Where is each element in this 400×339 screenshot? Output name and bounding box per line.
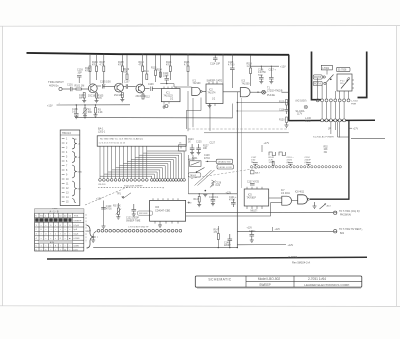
- svg-text:R101 1M: R101 1M: [75, 85, 85, 88]
- svg-text:C107: C107: [124, 82, 130, 84]
- TB101 group brackets: [72, 138, 77, 203]
- connector key: [250, 171, 254, 174]
- truth table header row: [35, 215, 79, 217]
- svg-text:+12V: +12V: [280, 65, 286, 68]
- pins IC2: [209, 82, 217, 106]
- svg-text:7-7051: 7-7051: [288, 255, 298, 259]
- diagonal pointer wire: [85, 186, 130, 205]
- capacitor C101: [71, 87, 77, 91]
- resistor column on shield edge R119: [286, 100, 288, 106]
- svg-text:1K: 1K: [188, 141, 191, 143]
- svg-text:74LS00: 74LS00: [242, 83, 251, 85]
- svg-text:GND: GND: [78, 171, 83, 173]
- truth table data rows: [36, 224, 81, 240]
- svg-text:0.1S: 0.1S: [73, 249, 78, 251]
- svg-text:SCHEMATIC: SCHEMATIC: [208, 278, 231, 282]
- truth table subheader: [39, 240, 73, 243]
- svg-text:L-7002: L-7002: [351, 101, 359, 103]
- svg-text:R111: R111: [144, 71, 150, 73]
- wire: bold horizontal into gate output: [310, 198, 350, 200]
- truth table dense row: [35, 218, 71, 222]
- svg-text:TP1: TP1: [117, 193, 122, 196]
- svg-text:C139 0.1: C139 0.1: [209, 197, 219, 199]
- svg-text:ADJ: ADJ: [327, 205, 331, 208]
- svg-text:TA7061P: TA7061P: [247, 197, 257, 200]
- wire IC7 to output gate: [292, 200, 298, 202]
- svg-text:IC1: IC1: [166, 92, 170, 95]
- resistor R108b: [95, 108, 97, 114]
- BA-1 pin ticks: [100, 146, 181, 148]
- svg-text:2SC1815: 2SC1815: [114, 95, 124, 97]
- cap C125: [196, 144, 201, 153]
- test point TP1 flag: [123, 193, 131, 199]
- resistor R142: [198, 197, 200, 203]
- coupling capacitor C109: [145, 87, 162, 92]
- feed resistor R113 at 155: [155, 55, 157, 70]
- feed resistor R110: [142, 55, 144, 66]
- trimmer pot: [320, 204, 327, 210]
- svg-text:C137 47/25: C137 47/25: [247, 181, 260, 183]
- output terminal 2: [334, 230, 337, 233]
- svg-text:+17V: +17V: [353, 127, 359, 130]
- svg-text:47/16: 47/16: [106, 209, 112, 211]
- ground under IC2: [208, 104, 212, 108]
- svg-text:NC GND GND Vcc CLK GND NC CLAB: NC GND GND Vcc CLK GND NC CLAB QQ: [100, 138, 143, 141]
- IC5 pins top: [247, 187, 262, 189]
- feed resistor R108: [121, 55, 123, 66]
- capacitor C118: [285, 105, 289, 114]
- +12V sub-bus: [251, 65, 280, 67]
- wire gate to sweep gate box: [202, 90, 206, 92]
- svg-text:B22: B22: [340, 233, 345, 235]
- svg-text:C117 +: C117 +: [269, 70, 277, 72]
- heater connector row: [250, 166, 341, 168]
- svg-text:S1-100A: S1-100A: [296, 110, 305, 113]
- feed wire 160: [159, 55, 161, 78]
- long dashed pointer: [191, 168, 262, 179]
- shield left wall: [312, 52, 322, 100]
- svg-text:0.5μS: 0.5μS: [73, 225, 79, 227]
- gate IC3: [240, 88, 250, 97]
- emitter network Q102: [121, 93, 123, 98]
- wire: bold right edge of sweep section: [288, 55, 290, 121]
- svg-text:47/16: 47/16: [204, 158, 210, 160]
- svg-text:L202-1: L202-1: [98, 131, 106, 133]
- power switch arm: [326, 75, 334, 83]
- power bus connector pins: [321, 119, 346, 122]
- svg-text:C118: C118: [279, 110, 285, 112]
- AC connector row: [316, 99, 350, 102]
- diagonal wires to board: [198, 170, 215, 186]
- cap C137 above IC5: [250, 184, 255, 186]
- coupling capacitor C107: [123, 84, 135, 89]
- node dots: [76, 104, 77, 105]
- svg-text:CD4047-CBE: CD4047-CBE: [155, 210, 170, 213]
- svg-text:10μS: 10μS: [73, 234, 79, 236]
- svg-text:R132 100K SWEEP: R132 100K SWEEP: [124, 186, 143, 188]
- capacitor C146: [228, 234, 233, 248]
- capacitor C122: [132, 204, 137, 214]
- bottom connector row CN-202: [97, 229, 182, 232]
- wire IC6 out A: [186, 211, 333, 213]
- svg-text:BA-7: BA-7: [255, 172, 261, 175]
- svg-text:POS: POS: [74, 215, 79, 217]
- IC6 top pins: [153, 198, 178, 200]
- ground column: [285, 123, 289, 128]
- slide switch S2: [190, 161, 202, 167]
- down wire from IC2: [209, 106, 211, 131]
- svg-text:R3 50K: R3 50K: [113, 206, 121, 208]
- node junction above IC1: [166, 83, 167, 84]
- feed resistor R118: [250, 55, 252, 68]
- feed resistor R102: [89, 55, 91, 66]
- svg-text:A?B: A?B: [50, 241, 55, 244]
- wire to bold edge: [266, 91, 267, 93]
- truth table frame: [35, 209, 84, 251]
- svg-text:L-100: L-100: [305, 118, 312, 120]
- svg-text:IC8 4011: IC8 4011: [295, 192, 305, 194]
- output terminal 1: [334, 211, 337, 214]
- resistor R101: [76, 88, 82, 90]
- long vertical wire from gate node: [236, 103, 238, 248]
- node dots bottom rail: [218, 247, 219, 248]
- svg-text:+17V: +17V: [264, 142, 270, 145]
- feed resistor R104: [96, 55, 98, 66]
- svg-text:4.7/50: 4.7/50: [228, 65, 235, 67]
- fuse box S1-7008: [337, 67, 351, 71]
- svg-text:+12V: +12V: [288, 244, 294, 247]
- wires below power bus: [331, 122, 340, 138]
- svg-text:R142: R142: [194, 199, 200, 201]
- svg-text:IC5: IC5: [248, 193, 252, 196]
- test point TP-1: [262, 90, 266, 94]
- power transformer label LT301: [321, 65, 332, 70]
- svg-text:TAN: TAN: [258, 74, 263, 77]
- svg-text:47K: 47K: [92, 65, 97, 67]
- wire: bold vertical to output gate: [348, 121, 350, 200]
- svg-text:C114 10P: C114 10P: [210, 64, 221, 66]
- ROT A jack: [313, 81, 322, 85]
- unblanking gate IC7: [282, 196, 292, 205]
- svg-text:LEADER ELECTRONICS CORP.: LEADER ELECTRONICS CORP.: [304, 283, 350, 287]
- IC5 pins bottom: [247, 206, 262, 209]
- wire: bold bus with power connector row: [288, 119, 375, 121]
- svg-text:0.22: 0.22: [216, 185, 221, 187]
- svg-text:+12V: +12V: [86, 231, 92, 233]
- pulse waveform glyphs: [269, 152, 275, 156]
- mode label box: [138, 211, 153, 215]
- svg-text:+12V: +12V: [226, 192, 232, 195]
- power select block: [337, 74, 352, 91]
- svg-text:R112: R112: [145, 97, 151, 99]
- wire up from rail: [217, 226, 219, 231]
- svg-text:R120: R120: [279, 120, 285, 122]
- resistor pack on board: [179, 145, 187, 151]
- wires AC row to power bus: [322, 102, 344, 119]
- svg-text:50K: 50K: [88, 112, 93, 114]
- feed resistor R109: [126, 55, 128, 74]
- bottom rail wire: [93, 247, 237, 249]
- feed resistor R111: [146, 55, 148, 74]
- svg-text:C105 1/50: C105 1/50: [100, 82, 111, 84]
- svg-text:TRIG INPUT: TRIG INPUT: [48, 80, 64, 84]
- wire gate row to shield edge: [237, 102, 288, 104]
- BA-1 header box: [97, 136, 186, 146]
- IC5 block: [244, 189, 269, 206]
- svg-text:C122 1000P: C122 1000P: [126, 217, 139, 219]
- svg-text:C127: C127: [210, 143, 216, 145]
- wire from IC2 down to mid line: [232, 104, 234, 118]
- resistor R120: [286, 117, 288, 123]
- wire to select boxes: [206, 160, 217, 162]
- test point TP-100: [304, 105, 307, 108]
- L wire to bold vertical: [338, 122, 349, 137]
- svg-text:PWR: PWR: [351, 103, 357, 105]
- wire IC2 to gate IC3: [223, 91, 240, 93]
- TB101 group labels: [75, 139, 83, 190]
- svg-text:(AC-100V): (AC-100V): [296, 99, 307, 102]
- ext trig wire: [57, 104, 131, 106]
- svg-text:SWEEP: SWEEP: [259, 283, 271, 287]
- emitter resistor R112: [142, 94, 144, 99]
- svg-text:IC6: IC6: [155, 205, 160, 209]
- svg-text:10K: 10K: [203, 148, 208, 150]
- svg-text:IC2: IC2: [209, 89, 213, 92]
- input jack J101: [59, 87, 62, 90]
- heater supply component clusters: [251, 157, 311, 164]
- IC6 bottom pins: [155, 221, 178, 223]
- svg-text:→: →: [58, 102, 61, 105]
- bottom border rule: [47, 257, 367, 259]
- wire faint to hv column: [237, 110, 284, 112]
- svg-text:47/16: 47/16: [229, 200, 235, 202]
- title block shadow line: [197, 288, 361, 290]
- svg-text:C109: C109: [148, 84, 154, 86]
- transistor Q102: [115, 83, 124, 92]
- svg-text:S1-7008: S1-7008: [338, 70, 347, 72]
- ground: [95, 98, 99, 103]
- svg-text:TO T-7001 (CG) P₁ⅼ: TO T-7001 (CG) P₁ⅼ: [339, 210, 360, 213]
- svg-text:POW: POW: [305, 121, 311, 123]
- output gate IC8: [298, 195, 308, 204]
- IC1 one-shot: [161, 89, 180, 102]
- gray vertical wire: [240, 98, 242, 188]
- potentiometer R133 sweep: [117, 208, 119, 215]
- top horizontal supply bus: [27, 53, 290, 55]
- svg-text:100P: 100P: [163, 75, 169, 77]
- svg-text:47K: 47K: [214, 232, 219, 234]
- routed wires pin1-13: [100, 149, 184, 179]
- wire: [62, 88, 70, 90]
- svg-text:LEVEL LOCK: LEVEL LOCK: [219, 167, 233, 169]
- transistor Q103: [136, 84, 145, 93]
- svg-text:C R T/D EXT GND TP: C R T/D EXT GND TP: [128, 227, 149, 229]
- svg-text:MULTI: MULTI: [251, 210, 258, 212]
- bracket to board: [87, 225, 95, 248]
- node dots on bus: [222, 54, 224, 56]
- feed resistor R107: [103, 55, 105, 66]
- svg-text:PH23M (4): PH23M (4): [340, 215, 351, 217]
- truth table grid: [35, 213, 84, 251]
- selector arm: [341, 80, 349, 89]
- svg-text:Ⅱ: Ⅱ: [65, 234, 66, 236]
- TB102 label box: [188, 173, 201, 177]
- svg-text:CN-201: CN-201: [98, 184, 106, 186]
- svg-text:C125: C125: [196, 141, 202, 143]
- wire bus to IC2 clk: [222, 55, 224, 84]
- node: [103, 86, 104, 87]
- svg-text:+12V: +12V: [247, 227, 253, 229]
- feed resistor R115: [169, 55, 171, 66]
- feed cap C113: [231, 55, 233, 68]
- svg-text:TB101/J: TB101/J: [62, 132, 72, 135]
- wire L to mid bus: [204, 132, 289, 134]
- wires into IC7: [269, 197, 282, 199]
- TB101 connector body: [60, 130, 80, 206]
- ROT B jack: [313, 75, 322, 79]
- svg-text:DELAYD SW: DELAYD SW: [218, 161, 232, 164]
- potentiometer R2 trig level: [84, 108, 86, 114]
- svg-text:TO T-7002 HV RECT₂: TO T-7002 HV RECT₂: [339, 228, 362, 231]
- svg-text:74LS00: 74LS00: [193, 83, 202, 85]
- ground under C139: [211, 201, 215, 206]
- wire to Q101 base: [82, 88, 89, 90]
- hv output wire lower: [237, 230, 333, 232]
- svg-text:117V: 117V: [297, 114, 303, 116]
- TB101 pins: [62, 139, 65, 202]
- capacitor C120: [101, 208, 106, 210]
- svg-text:AUTO: AUTO: [189, 158, 195, 161]
- svg-text:74LS123: 74LS123: [164, 96, 174, 98]
- ground under IC6: [158, 224, 162, 228]
- cap C110: [165, 75, 170, 83]
- cap C124: [190, 144, 195, 153]
- wire IC2 gnd return: [186, 98, 201, 130]
- dashed link from table: [85, 214, 87, 243]
- svg-text:+12V: +12V: [275, 229, 281, 231]
- svg-text:2.2K: 2.2K: [98, 112, 103, 114]
- TB101 pin numbers: [66, 139, 69, 204]
- mid wire bus: [188, 193, 237, 195]
- pins IC1: [164, 87, 176, 104]
- svg-text:470K: 470K: [118, 65, 124, 67]
- ground left: [91, 234, 95, 242]
- svg-text:1/4 4011: 1/4 4011: [281, 193, 290, 195]
- svg-text:68P: 68P: [79, 98, 84, 100]
- resistor R103 to ground: [83, 93, 85, 99]
- board cut dashed line: [98, 186, 164, 188]
- svg-text:0.1MS: 0.1MS: [73, 238, 80, 240]
- svg-text:1μS: 1μS: [73, 229, 77, 231]
- svg-text:470K: 470K: [85, 71, 91, 73]
- capacitor cluster symbols: [253, 161, 311, 166]
- +17V stub: [349, 127, 352, 129]
- shield right wall: [358, 52, 367, 98]
- svg-text:2-7051 1²/64: 2-7051 1²/64: [308, 277, 326, 281]
- svg-text:C7202 47KΩ/B: C7202 47KΩ/B: [267, 91, 283, 93]
- svg-text:BA-1: BA-1: [98, 128, 104, 131]
- svg-text:SW: SW: [78, 188, 81, 190]
- feed resistor R116: [187, 55, 189, 66]
- resistor R147: [217, 234, 219, 240]
- svg-text:+12V: +12V: [47, 105, 53, 108]
- svg-text:C101: C101: [67, 84, 73, 87]
- ground: [82, 98, 86, 103]
- svg-text:T/D: T/D: [40, 215, 44, 217]
- trig coupling select boxes: [216, 159, 233, 163]
- svg-text:22K: 22K: [124, 72, 129, 74]
- svg-text:4.7K: 4.7K: [184, 65, 189, 67]
- emitter resistor R105: [96, 93, 98, 98]
- svg-text:TB102: TB102: [190, 175, 197, 177]
- wire +12V rail lower: [237, 244, 286, 246]
- svg-text:1 2 3 4 5 6 7 8 9 10: 1 2 3 4 5 6 7 8 9 10 11 12 13: [99, 143, 126, 145]
- cap C114 at top: [213, 55, 218, 62]
- ground: [102, 226, 106, 228]
- svg-text:+12V: +12V: [96, 198, 102, 201]
- switch arm diagonal: [197, 168, 205, 173]
- wire gate IC3 to test point: [250, 91, 261, 93]
- svg-text:2200P: 2200P: [224, 245, 231, 247]
- title block frame: [195, 276, 361, 287]
- dashed wire to sweep section: [188, 128, 288, 130]
- svg-text:2SC1815: 2SC1815: [88, 96, 98, 98]
- wires down to AC row: [318, 78, 349, 99]
- ground under R142: [197, 202, 201, 207]
- svg-text:SW LEN: SW LEN: [139, 213, 148, 215]
- coupling capacitor C105: [97, 85, 101, 87]
- svg-text:33P: 33P: [78, 71, 83, 74]
- long horizontal wire mid: [75, 117, 233, 119]
- svg-text:R119: R119: [279, 102, 285, 104]
- svg-text:R114: R114: [157, 70, 163, 72]
- vertical wires below top row: [187, 91, 189, 131]
- truth table bottom rows: [36, 244, 80, 251]
- transistor Q101: [88, 84, 97, 93]
- title block dividers: [246, 276, 362, 287]
- svg-text:S1-7001 AC POWER: S1-7001 AC POWER: [313, 136, 334, 139]
- svg-text:SWEEP TIME: SWEEP TIME: [126, 220, 141, 222]
- svg-text:SWEEP: SWEEP: [73, 221, 81, 223]
- svg-text:400V/1s: 400V/1s: [49, 84, 59, 88]
- svg-text:PULSE: PULSE: [267, 94, 275, 97]
- svg-text:LT301: LT301: [323, 67, 330, 70]
- svg-text:10MS: 10MS: [73, 245, 79, 247]
- ground under gate: [313, 202, 317, 208]
- ground under IC1: [163, 105, 169, 109]
- svg-text:Model LBO-502: Model LBO-502: [258, 277, 281, 281]
- capacitor C139: [211, 194, 216, 201]
- svg-text:74LS74: 74LS74: [208, 93, 217, 95]
- svg-text:�▷: �▷: [188, 202, 192, 205]
- IC2 sweep gate ff: [206, 84, 223, 104]
- svg-text:4.7K: 4.7K: [100, 65, 105, 67]
- junction node: [205, 190, 207, 192]
- wire IC6 out B: [186, 203, 271, 216]
- gate IC1b NAND: [192, 87, 200, 95]
- board edge connector row: [99, 179, 186, 182]
- IC6 sweep generator: [150, 200, 186, 221]
- pot R133b: [212, 180, 214, 186]
- svg-text:Rev 5M024-2-A: Rev 5M024-2-A: [292, 261, 310, 265]
